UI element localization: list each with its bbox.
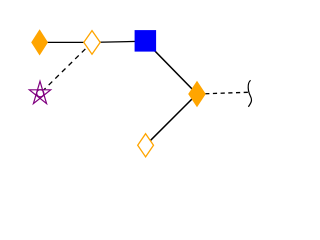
node A filled diamond [31, 29, 48, 55]
bracket squiggle [248, 80, 251, 107]
node E open diamond [138, 134, 154, 157]
wire B-S dashed [40, 42, 92, 93]
wire B-C [92, 41, 145, 42]
wire D-bracket dashed [197, 92, 248, 94]
wire D-E [146, 94, 197, 145]
wire C-D [145, 41, 197, 94]
node D filled diamond [188, 81, 206, 108]
node C blue square [135, 30, 157, 51]
node B open diamond [84, 31, 100, 55]
wire A-B [40, 41, 93, 43]
node S center circle [37, 90, 44, 97]
node S pentagram star [29, 81, 50, 103]
